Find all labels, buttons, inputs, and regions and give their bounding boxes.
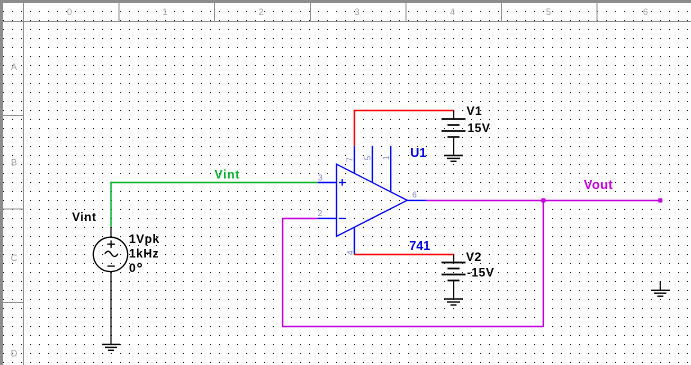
wire V1 red (pin7 to V1) xyxy=(354,111,454,146)
svg-text:5: 5 xyxy=(546,7,551,17)
wire net Vint (green) xyxy=(111,183,318,227)
op-amp minus mark xyxy=(339,217,346,219)
svg-text:7: 7 xyxy=(345,157,354,162)
wire source bottom to ground xyxy=(110,271,112,344)
wire net Vout (magenta) output run xyxy=(426,199,660,201)
ground GND2 (under V1) xyxy=(444,156,463,162)
ground GND4 (right, floating) xyxy=(659,281,661,290)
outer frame bands xyxy=(0,0,691,3)
svg-text:4: 4 xyxy=(450,7,455,17)
AC source Vint xyxy=(93,237,127,271)
top ruler ticks xyxy=(118,3,120,22)
svg-text:3: 3 xyxy=(318,174,323,183)
ground GND1 xyxy=(102,344,120,350)
svg-text:Vout: Vout xyxy=(584,177,614,192)
svg-text:C: C xyxy=(11,253,18,263)
svg-text:Vint: Vint xyxy=(215,167,241,181)
ground GND3 (under V2) xyxy=(444,299,463,305)
pin 5 stub xyxy=(371,146,373,183)
svg-text:2: 2 xyxy=(258,7,263,17)
left ruler ticks xyxy=(3,115,24,117)
battery V1 xyxy=(453,111,455,120)
battery V2 xyxy=(453,254,455,262)
wire feedback down xyxy=(542,200,544,326)
svg-text:D: D xyxy=(11,349,18,359)
wire feedback left up xyxy=(282,218,284,326)
svg-text:U1: U1 xyxy=(410,146,426,160)
svg-text:1: 1 xyxy=(162,7,167,17)
pin 6 stub xyxy=(407,199,426,201)
op-amp plus mark xyxy=(339,179,346,218)
pin 2 stub xyxy=(318,217,337,219)
wire feedback bottom xyxy=(283,325,544,327)
svg-text:1: 1 xyxy=(382,155,391,160)
svg-text:741: 741 xyxy=(409,239,430,253)
wire V2 red (pin4 to V2) xyxy=(354,253,454,255)
svg-text:-15V: -15V xyxy=(467,265,494,279)
svg-text:1Vpk: 1Vpk xyxy=(129,232,160,246)
svg-text:0: 0 xyxy=(67,7,72,17)
pin 1 stub xyxy=(390,146,392,192)
wire source top stub xyxy=(110,227,112,238)
wire feedback into pin2 xyxy=(283,217,318,219)
svg-text:0: 0 xyxy=(129,261,136,275)
svg-text:3: 3 xyxy=(354,7,359,17)
op-amp pin stubs xyxy=(318,146,427,255)
wire end node xyxy=(658,198,662,202)
pin 7 stub xyxy=(353,146,355,174)
svg-text:Vint: Vint xyxy=(72,210,96,224)
svg-text:1kHz: 1kHz xyxy=(129,246,159,260)
svg-text:6: 6 xyxy=(643,7,648,17)
svg-text:A: A xyxy=(11,62,17,72)
svg-text:V1: V1 xyxy=(467,104,483,118)
svg-text:4: 4 xyxy=(346,250,355,255)
svg-text:15V: 15V xyxy=(468,121,491,135)
pin 3 stub xyxy=(318,182,337,184)
svg-text:B: B xyxy=(11,158,17,168)
svg-text:V2: V2 xyxy=(466,250,482,264)
pin 4 stub xyxy=(353,227,355,254)
op-amp U1 triangle xyxy=(337,164,408,236)
svg-text:5: 5 xyxy=(363,155,372,160)
junction node xyxy=(541,198,545,202)
svg-text:6: 6 xyxy=(412,190,417,199)
svg-text:2: 2 xyxy=(318,209,323,218)
